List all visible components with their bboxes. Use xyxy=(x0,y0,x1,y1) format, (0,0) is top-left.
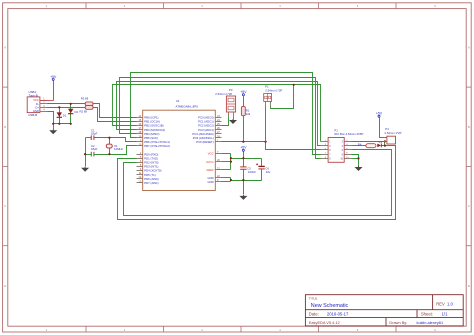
junction gnd rail 2 xyxy=(58,123,60,125)
junction P2 rail xyxy=(293,84,295,86)
svg-text:AREF: AREF xyxy=(206,168,214,172)
junction D- / D2 xyxy=(70,103,72,105)
U1 pin 4 PD2 (INT0) xyxy=(137,160,159,165)
svg-text:C: C xyxy=(468,204,470,208)
connector P4 2.54mm 1*2P xyxy=(382,127,402,144)
wire P1 pin2 to P4 xyxy=(352,141,387,143)
svg-text:D2: D2 xyxy=(75,110,79,114)
wire USB D+ to R2 xyxy=(48,107,86,109)
svg-text:kuklin.alexey81: kuklin.alexey81 xyxy=(417,320,444,325)
U1 pin 1 PC6 (RESET) xyxy=(196,139,221,144)
U1 pin 11 PD5 (T1) xyxy=(137,172,156,177)
U1 pin 25 PC2 (ADC2) xyxy=(198,123,221,128)
wire +5V to USB VCC pin1 xyxy=(53,81,55,101)
mcu U1 ATMEGA8A_8PU body xyxy=(143,99,216,191)
ground (P3) xyxy=(229,119,237,124)
junction avcc xyxy=(230,161,232,163)
wire P2 pin to reset net xyxy=(265,107,267,142)
junction gnd rail 1 xyxy=(52,123,54,125)
connector P3 2.54mm 1*2P xyxy=(215,88,235,117)
wire P2 to rail xyxy=(271,85,294,109)
junction gnd rail a xyxy=(230,179,232,181)
capacitor C6 10u polarized xyxy=(256,159,271,181)
svg-text:2.54mm 1*2P: 2.54mm 1*2P xyxy=(265,88,282,92)
U1 pin 28 PC5 (ADC5SCL) xyxy=(193,135,222,140)
ground (C5) xyxy=(239,195,247,200)
wire USB VCC red segment xyxy=(40,100,54,102)
svg-text:100nF: 100nF xyxy=(248,170,256,174)
svg-text:12MHz: 12MHz xyxy=(114,147,123,151)
connector USB1 Type-B xyxy=(27,90,47,117)
diode D1 xyxy=(57,112,67,117)
svg-text:R2 68: R2 68 xyxy=(80,110,88,114)
junction P4 link bottom xyxy=(384,145,386,147)
svg-text:A: A xyxy=(4,45,6,49)
svg-text:R3 68: R3 68 xyxy=(81,97,89,101)
wire P1 pin8 pin10 to ground xyxy=(352,155,359,167)
resistor R1 10k xyxy=(241,107,251,117)
power +5V (AVCC) xyxy=(240,146,247,152)
wire R3 to PB0 xyxy=(94,104,137,118)
svg-text:1/1: 1/1 xyxy=(442,312,448,317)
wire P1 pin4 to R4 xyxy=(352,145,366,147)
wire R2 to PB1 xyxy=(94,108,137,122)
svg-text:PD7 (AIN1): PD7 (AIN1) xyxy=(144,181,158,185)
U1 pin 3 PD1 (TXD) xyxy=(137,156,159,161)
diode D2 xyxy=(68,109,79,114)
wire R1 to reset net xyxy=(243,116,245,142)
svg-text:Sheet:: Sheet: xyxy=(421,312,433,317)
svg-text:TITLE:: TITLE: xyxy=(309,297,318,301)
wire D3 to PD1 long rail xyxy=(118,146,396,220)
U1 pin 26 PC3 (ADC3) xyxy=(198,127,221,132)
wire xtal top to PB6 xyxy=(86,138,137,145)
U1 pin 15 PB1 (OC1A) xyxy=(137,119,160,124)
svg-text:2.54mm 1*2P: 2.54mm 1*2P xyxy=(215,92,232,96)
U1 pin 17 PB3 (MOSIOC2) xyxy=(137,127,166,132)
junction reset R1 xyxy=(242,141,244,143)
svg-text:PC6 (RESET): PC6 (RESET) xyxy=(196,140,213,144)
wire +5V to P4 pin1 xyxy=(380,118,387,138)
wire rail SCK PB5 to P1 pin7 xyxy=(131,73,321,155)
svg-text:1.0: 1.0 xyxy=(447,302,453,307)
U1 pin 16 PB2 (SSOC1B) xyxy=(137,123,164,128)
svg-text:AVCC: AVCC xyxy=(206,160,214,164)
connector P1 IDC Box 2.54mm 2X5P xyxy=(321,129,364,163)
ground (P1) xyxy=(355,166,363,171)
svg-text:VCC: VCC xyxy=(208,152,214,156)
U1 pin 20 AVCC xyxy=(206,159,221,164)
wire caps to ground xyxy=(85,138,87,167)
svg-text:D: D xyxy=(468,284,470,288)
U1 pin 5 PD3 (INT1) xyxy=(137,164,159,169)
svg-text:Date:: Date: xyxy=(309,312,319,317)
capacitor C5 100nF xyxy=(240,159,256,195)
wire D2 branch xyxy=(70,104,72,124)
wire P3 pin1 to PC2 xyxy=(222,118,229,126)
U1 pin 13 PD7 (AIN1) xyxy=(137,180,159,185)
svg-text:Drawn By:: Drawn By: xyxy=(389,320,407,325)
junction P1 gnd xyxy=(357,157,359,159)
crystal X1 12MHz xyxy=(106,144,123,151)
svg-text:EasyEDA V5.4.12: EasyEDA V5.4.12 xyxy=(309,320,340,325)
svg-text:D-: D- xyxy=(36,102,39,106)
wire reset to P1 pin5 xyxy=(266,142,321,150)
svg-text:2016-05-17: 2016-05-17 xyxy=(327,312,349,317)
junction reset P2 xyxy=(265,141,267,143)
power +5V (USB VCC) xyxy=(50,75,57,81)
U1 pin 24 PC1 (ADC1) xyxy=(198,119,221,124)
svg-text:PB7 (XTAL2TOSC2): PB7 (XTAL2TOSC2) xyxy=(144,144,170,148)
svg-text:D+: D+ xyxy=(35,106,39,110)
svg-text:IDC Box 2.54mm 2X5P: IDC Box 2.54mm 2X5P xyxy=(334,132,363,136)
connector P2 2.54mm 1*2P xyxy=(264,85,283,107)
power +5V (R1) xyxy=(240,90,247,96)
wire PC6 reset to P2 xyxy=(222,141,266,143)
wire P3 pin2 to ground xyxy=(233,118,235,120)
svg-text:2.54mm 1*2P: 2.54mm 1*2P xyxy=(385,131,402,135)
svg-text:10k: 10k xyxy=(246,112,251,116)
junction xtal top xyxy=(108,137,110,139)
wire USB D- to R3 xyxy=(48,103,86,105)
U1 pin 21 AREF xyxy=(206,167,221,172)
junction P4 link top xyxy=(384,140,386,142)
svg-text:Type-B: Type-B xyxy=(29,93,38,97)
U1 pin 8 GND xyxy=(207,179,221,184)
wire GND pins tie xyxy=(222,178,231,182)
ground (USB) xyxy=(49,129,57,134)
U1 pin 14 PB0 (ICP1) xyxy=(137,115,159,120)
capacitor C2 18pF xyxy=(91,144,98,156)
resistor R2 68 xyxy=(80,106,94,114)
junction gnd rail b xyxy=(242,179,244,181)
U1 pin 10 PB7 (XTAL2TOSC2) xyxy=(137,143,170,148)
U1 pin 12 PD6 (AIN0) xyxy=(137,176,159,181)
U1 pin 2 PD0 (RXD) xyxy=(137,152,159,157)
resistor R3 68 xyxy=(81,97,93,106)
svg-text:GND: GND xyxy=(207,180,213,184)
U1 pin 6 PD4 (XCKT0) xyxy=(137,168,162,173)
junction gnd rail 3 xyxy=(70,123,72,125)
svg-text:New Schematic: New Schematic xyxy=(311,303,349,309)
wire +5V rail to caps xyxy=(231,152,262,159)
svg-text:GND: GND xyxy=(33,109,39,113)
junction xtal bottom xyxy=(108,153,110,155)
U1 pin 9 PB6 (XTAL1TOSC1) xyxy=(137,139,170,144)
svg-text:R4: R4 xyxy=(358,143,362,147)
svg-text:D: D xyxy=(4,284,6,288)
wire USB GND down xyxy=(48,112,54,130)
wire gnd rail under diodes xyxy=(54,123,71,125)
junction vcc rail 2 xyxy=(242,157,244,159)
wire P4 pin2 link xyxy=(384,142,386,146)
junction D+ / D1 xyxy=(58,106,60,108)
wire rail MOSI PB3 to P1 pin3 xyxy=(117,82,321,146)
U1 pin 22 GND xyxy=(207,175,221,180)
resistor R4 xyxy=(358,143,376,148)
svg-text:VCC: VCC xyxy=(33,98,39,102)
svg-text:USB-B: USB-B xyxy=(28,113,37,117)
capacitor C1 18pF xyxy=(91,128,98,140)
svg-text:ATMEGA8A_8PU: ATMEGA8A_8PU xyxy=(176,105,199,109)
wire rail PB2 to P1 pin1 xyxy=(113,85,321,142)
wire +5V to R1 xyxy=(243,96,245,107)
svg-text:A: A xyxy=(468,45,470,49)
svg-text:B: B xyxy=(468,125,470,129)
U1 pin 18 PB4 (MISO) xyxy=(137,131,160,136)
svg-text:10u: 10u xyxy=(266,170,271,174)
svg-text:18pF: 18pF xyxy=(91,147,98,151)
U1 pin 27 PC4 (ADC4SDA) xyxy=(192,131,221,136)
wire xtal bottom to PB7 xyxy=(86,146,137,155)
wire P1 pin6 to PD2 long rail xyxy=(124,150,392,216)
svg-text:REV: REV xyxy=(436,302,445,307)
wire gnd rail caps xyxy=(231,180,262,182)
svg-text:B: B xyxy=(4,125,6,129)
diode D3 LED xyxy=(377,142,382,148)
wire rail MISO PB4 to P1 pin9 xyxy=(120,78,321,159)
svg-text:D1: D1 xyxy=(63,113,67,117)
U1 pin 7 VCC xyxy=(208,151,222,156)
U1 pin 23 PC0 (ADC0) xyxy=(198,115,221,120)
junction vcc rail 1 xyxy=(230,157,232,159)
svg-text:U1: U1 xyxy=(176,99,180,103)
svg-text:C: C xyxy=(4,204,6,208)
wire VCC AVCC AREF tie xyxy=(222,154,231,170)
wire D1 branch xyxy=(59,108,61,124)
svg-text:18pF: 18pF xyxy=(91,132,98,136)
junction caps gnd xyxy=(84,153,86,155)
U1 pin 19 PB5 (SCK) xyxy=(137,135,159,140)
power +5V (P4) xyxy=(376,112,383,118)
ground (crystal caps) xyxy=(81,167,89,172)
